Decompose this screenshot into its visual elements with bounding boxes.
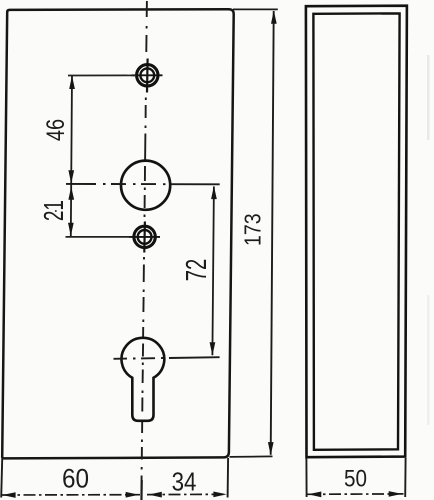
arrow 50 right [389,491,402,497]
dimension line 60 [2,494,140,496]
hole H1 cross vertical [146,59,149,93]
arrow 46 bottom [68,170,74,183]
horizontal centerline keyhole and extension line 72 bottom [114,357,220,359]
arrow 21 bottom [68,223,74,236]
dimension line 72 [212,187,214,356]
arrow 60 right [126,492,139,498]
horizontal centerline big circle [66,183,220,185]
hole H1 inner circle [140,68,154,82]
hole H2 outer circle [134,226,155,247]
extension line 50 left [305,458,307,497]
svg-text:34: 34 [172,468,197,497]
faint scan smudge right edge [427,55,430,140]
arrow 34 left [149,492,162,498]
extension line bottom right [227,458,230,498]
arrow 46 top [69,76,75,89]
extension line hole H1 [68,74,136,76]
arrow 72 top [211,186,217,199]
extension line hole H2 [66,236,130,238]
arrow 34 right [213,492,226,498]
arrow 50 left [308,492,321,498]
hole H2 inner circle [138,230,152,244]
scan speck near label 21 [55,210,57,212]
dimension line 173 [271,11,274,455]
hole H1 cross horizontal [132,74,163,76]
arrow 173 top [271,10,277,23]
dimension line 50 [308,493,404,495]
hole H1 outer circle [137,65,158,86]
svg-text:173: 173 [240,213,266,246]
big hole circle [121,161,170,210]
extension line bottom left [1,459,2,498]
arrow 173 bottom [268,442,274,455]
hole H2 cross horizontal [129,236,160,238]
extension line 50 right [404,458,406,497]
svg-text:60: 60 [62,464,89,493]
plate front view outline [2,9,234,458]
svg-text:21: 21 [40,200,70,221]
extension line 173 bottom [230,455,273,458]
dimension line 46 and 21 [71,76,72,236]
side view inner outline [313,13,399,449]
dimension line 34 [147,493,228,495]
svg-text:46: 46 [42,119,70,141]
euro cylinder keyhole [121,338,164,421]
arrow 60 left [2,492,15,498]
vertical centerline [141,1,147,500]
svg-text:50: 50 [344,465,367,492]
side view outer outline [306,6,407,458]
extension line 173 top [233,8,278,10]
svg-text:72: 72 [180,259,212,282]
centerline bottom solid [141,480,143,500]
arrow 21 top [68,186,74,199]
arrow 72 bottom [210,342,216,355]
hole H2 cross vertical [143,222,146,253]
